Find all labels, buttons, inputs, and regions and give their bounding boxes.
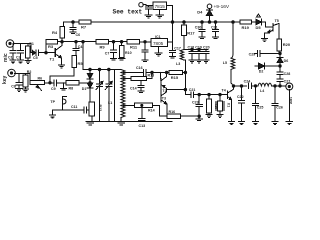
svg-text:R4: R4 xyxy=(52,30,58,35)
svg-text:C31: C31 xyxy=(211,25,218,29)
diode D2 top xyxy=(89,70,91,74)
svg-text:C25: C25 xyxy=(257,105,264,109)
connector ant xyxy=(286,83,293,90)
svg-text:C1: C1 xyxy=(8,56,13,60)
wire T3 emitter to R16 xyxy=(166,104,168,116)
resistor R3 feedback xyxy=(45,42,47,53)
inductor L1 tapped coil xyxy=(121,70,125,118)
svg-text:See text: See text xyxy=(113,9,143,16)
ground under R1 xyxy=(25,59,31,61)
svg-text:C13: C13 xyxy=(139,124,146,128)
connector mic xyxy=(6,40,14,48)
diode D4 xyxy=(209,9,211,10)
capacitor C9 xyxy=(53,80,55,86)
capacitor C2 xyxy=(20,44,22,51)
transistor T3 xyxy=(160,86,162,94)
capacitor C26 xyxy=(274,85,276,87)
resistor R9 xyxy=(96,40,108,44)
svg-text:R20: R20 xyxy=(283,42,291,47)
capacitor C19 xyxy=(198,48,200,50)
resistor R10 xyxy=(120,41,122,43)
svg-text:T1: T1 xyxy=(50,57,55,62)
diode D6 xyxy=(279,62,281,66)
ground under T1 emitter xyxy=(61,58,63,65)
wire tank tap to R14 xyxy=(123,104,134,106)
tap to C10 xyxy=(62,82,64,84)
svg-text:R2: R2 xyxy=(27,70,32,74)
transistor T4 xyxy=(226,94,228,96)
node 15V bus junction xyxy=(171,21,174,24)
transistor T5 xyxy=(272,24,274,32)
regulator 7815 xyxy=(153,2,167,10)
svg-text:C28: C28 xyxy=(284,72,291,76)
terminal (see text) xyxy=(139,2,143,6)
svg-text:C4: C4 xyxy=(78,45,83,49)
svg-text:C23: C23 xyxy=(192,101,199,105)
svg-text:L5: L5 xyxy=(223,61,227,65)
resistor R12 xyxy=(89,102,95,116)
wire collector drop x83 xyxy=(82,42,84,70)
capacitor C8 xyxy=(18,73,20,82)
capacitor C18 xyxy=(191,48,193,50)
svg-text:D5: D5 xyxy=(256,25,262,30)
inductor L5 feed xyxy=(232,21,235,24)
wire L1 left return xyxy=(114,70,116,122)
resistor R7 xyxy=(79,20,91,24)
potentiometer R6 xyxy=(30,80,45,84)
svg-text:C29: C29 xyxy=(249,52,256,56)
trimmer capacitor C10 xyxy=(108,70,110,84)
capacitor C4 xyxy=(75,42,77,49)
capacitor C17 xyxy=(172,42,174,50)
capacitor C25 xyxy=(254,85,256,87)
ground under R2 xyxy=(22,88,28,90)
svg-text:C26: C26 xyxy=(276,105,283,109)
crystal X1 xyxy=(219,93,221,95)
capacitor C29 xyxy=(279,52,281,54)
svg-text:C18: C18 xyxy=(188,46,195,50)
capacitor C14 xyxy=(140,81,142,86)
resistor R17 xyxy=(183,21,186,24)
svg-text:ant: ant xyxy=(288,97,293,104)
resistor R5 xyxy=(72,56,77,68)
svg-text:L4: L4 xyxy=(260,89,264,93)
svg-text:R7: R7 xyxy=(81,25,87,30)
svg-text:R13: R13 xyxy=(148,74,155,78)
svg-text:C22: C22 xyxy=(237,95,244,99)
capacitor C16 xyxy=(143,70,145,76)
svg-text:R1: R1 xyxy=(29,42,34,46)
svg-text:L1: L1 xyxy=(108,101,112,105)
inductor L3 xyxy=(180,50,184,60)
svg-text:T4: T4 xyxy=(222,88,226,92)
wire tank tap to C16 row xyxy=(123,72,143,74)
wire supply bus xyxy=(91,21,240,23)
wire base xyxy=(46,52,55,54)
wire D1 to R12 xyxy=(89,88,91,101)
svg-text:D2: D2 xyxy=(259,70,264,74)
mark above D5 xyxy=(256,14,260,17)
svg-text:R8: R8 xyxy=(69,86,74,90)
svg-text:7805: 7805 xyxy=(153,41,164,46)
capacitor C1 xyxy=(12,44,14,51)
wire 7805 right xyxy=(168,41,173,43)
wire mic input xyxy=(14,44,31,53)
ground xyxy=(145,14,152,16)
wire D4 to bus xyxy=(209,15,211,22)
resistor R14 xyxy=(135,103,153,107)
capacitor C30 xyxy=(201,21,204,24)
svg-text:R15: R15 xyxy=(171,75,179,80)
capacitor C7 xyxy=(112,41,114,43)
wire R4 to collector node xyxy=(61,38,63,42)
svg-text:R10: R10 xyxy=(125,51,132,55)
wire key input xyxy=(15,73,30,80)
svg-text:D6: D6 xyxy=(284,59,289,63)
svg-text:R17: R17 xyxy=(187,31,195,36)
svg-text:C11: C11 xyxy=(71,105,77,109)
ground under 7805 xyxy=(158,46,160,53)
wire T4 emitter to ground xyxy=(231,100,233,122)
regulator 7805 xyxy=(151,39,168,47)
resistor R11 xyxy=(127,40,140,44)
svg-text:L3: L3 xyxy=(176,62,180,66)
svg-text:C21: C21 xyxy=(189,88,196,92)
svg-text:+9-16V: +9-16V xyxy=(214,4,230,10)
capacitor C31 xyxy=(214,21,217,24)
trimmer capacitor C12 xyxy=(99,70,101,84)
transistor T1 xyxy=(54,48,56,56)
capacitor C5 electrolytic xyxy=(31,52,32,54)
svg-text:key: key xyxy=(2,75,8,84)
wire mixer row xyxy=(83,69,121,71)
svg-text:C27: C27 xyxy=(284,79,291,83)
svg-text:D4: D4 xyxy=(197,10,203,15)
capacitor C15 xyxy=(144,41,146,43)
capacitor shunt C22 xyxy=(240,85,242,87)
resistor R16 xyxy=(167,114,181,118)
svg-text:T3: T3 xyxy=(162,96,166,100)
svg-text:C16: C16 xyxy=(136,66,143,70)
wire xyxy=(143,4,153,7)
wire to C9 xyxy=(45,82,54,84)
diode D1 xyxy=(87,83,93,88)
resistor R19 xyxy=(240,20,252,24)
resistor R1 xyxy=(26,46,31,58)
svg-text:R16: R16 xyxy=(169,110,176,114)
svg-text:R11: R11 xyxy=(130,44,138,49)
svg-text:R12: R12 xyxy=(98,105,102,112)
diode D5 xyxy=(252,21,256,23)
svg-text:C5: C5 xyxy=(33,56,38,60)
svg-text:C24: C24 xyxy=(244,80,251,84)
wire C18 C19 C20 row xyxy=(184,49,208,51)
svg-text:R14: R14 xyxy=(148,109,155,113)
svg-text:C20: C20 xyxy=(203,46,210,50)
inductor L4 xyxy=(258,83,272,86)
ground rail xyxy=(86,121,172,123)
capacitor C28 xyxy=(277,71,283,73)
resistor R8 xyxy=(66,80,79,84)
capacitor C13b xyxy=(141,105,143,118)
ground under C1 xyxy=(10,59,16,61)
svg-text:D1: D1 xyxy=(82,87,87,91)
capacitor C24 series xyxy=(248,83,250,89)
terminal +9-16V xyxy=(207,4,212,9)
detector chain: C27 xyxy=(279,85,281,87)
resistor R4 xyxy=(60,27,65,39)
svg-text:7815: 7815 xyxy=(155,4,166,9)
svg-text:IC1: IC1 xyxy=(155,35,161,39)
svg-text:C7: C7 xyxy=(105,52,110,56)
ground under C7 xyxy=(110,57,116,59)
svg-text:X1: X1 xyxy=(226,103,230,107)
diode D2 xyxy=(255,65,259,67)
svg-text:R19: R19 xyxy=(242,25,250,30)
svg-text:R9: R9 xyxy=(100,44,106,49)
wire PA output line xyxy=(234,85,247,87)
capacitor C6 xyxy=(72,22,74,27)
svg-text:R3: R3 xyxy=(48,44,54,49)
capacitor C21 xyxy=(185,90,190,95)
wire collector row xyxy=(62,41,96,43)
ground under C2 xyxy=(17,59,23,61)
svg-text:C14: C14 xyxy=(130,86,137,90)
resistor R13 xyxy=(123,77,131,79)
svg-text:C30: C30 xyxy=(195,25,202,29)
resistor R20 xyxy=(277,39,282,51)
capacitor C20 xyxy=(205,50,207,52)
ground under C8 xyxy=(16,87,23,89)
transistor T2 xyxy=(159,73,161,79)
svg-text:C19: C19 xyxy=(195,46,202,50)
svg-text:TP: TP xyxy=(50,100,55,104)
capacitor at 7815 input xyxy=(148,6,150,7)
test point TP1 xyxy=(63,83,65,88)
wire bus left bend to R4 xyxy=(64,22,80,27)
wire 7815 output to bus xyxy=(167,6,173,43)
resistor R15 xyxy=(167,72,169,74)
connector key input xyxy=(8,69,16,77)
svg-text:C2: C2 xyxy=(16,56,21,60)
ground under T5 emitter xyxy=(264,33,266,38)
svg-text:C9: C9 xyxy=(51,87,56,91)
svg-text:R6: R6 xyxy=(38,77,43,81)
svg-text:T5: T5 xyxy=(275,19,279,23)
capacitor C23 xyxy=(198,93,200,95)
resistor R18 xyxy=(208,93,210,95)
node T1 base xyxy=(45,52,47,54)
wire T2/T3 node xyxy=(167,89,186,90)
wire R5 bottom to C9 node xyxy=(50,67,74,82)
svg-text:C6: C6 xyxy=(76,33,81,37)
svg-text:C17: C17 xyxy=(174,46,181,50)
resistor R2 xyxy=(23,75,28,87)
ground under 7815 xyxy=(159,10,161,15)
